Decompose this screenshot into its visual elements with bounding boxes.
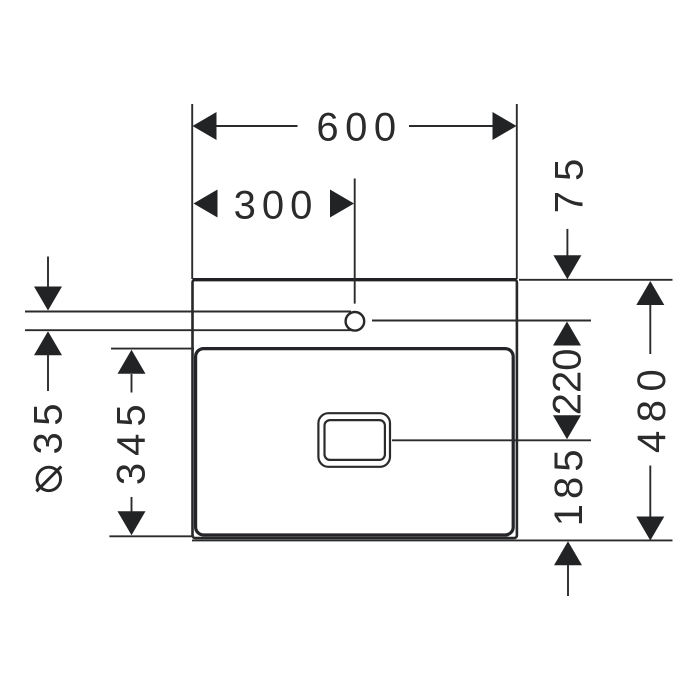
dimension 345 top extension line	[111, 348, 194, 350]
svg-text:345: 345	[110, 397, 154, 485]
svg-text:300: 300	[234, 184, 319, 228]
dimension 185 label	[547, 445, 591, 527]
extension line right vertical (600)	[516, 104, 518, 279]
dimension 345 bottom extension line	[109, 535, 194, 537]
svg-text:75: 75	[548, 149, 592, 214]
dimension 600 right arrow	[493, 112, 517, 140]
faucet hole right extension line	[372, 320, 591, 322]
diameter 35 down arrow	[34, 287, 62, 311]
svg-text:35: 35	[27, 397, 71, 455]
dimension 75 leader line	[566, 229, 568, 257]
dimension 345 down arrow	[118, 511, 146, 535]
faucet hole circle	[346, 312, 365, 331]
svg-text:600: 600	[316, 106, 402, 150]
dimension 220 up arrow	[553, 322, 581, 346]
dimension 480 upper leader line	[649, 305, 651, 355]
svg-text:220: 220	[546, 349, 590, 416]
dimension 75 down arrow	[553, 255, 581, 279]
dimension 480 label	[630, 361, 674, 453]
diameter 35 upper leader line	[47, 257, 49, 289]
dimension 220 down arrow	[553, 415, 581, 439]
dimension 600 label	[316, 106, 402, 150]
dimension 600 left arrow	[193, 112, 217, 140]
dimension 300 left arrow	[194, 190, 218, 218]
diameter 35 up arrow	[34, 331, 62, 355]
faucet hole centerline	[354, 179, 356, 304]
diameter 35 top tangent line	[25, 311, 351, 313]
drain outer rounded rect	[318, 413, 390, 467]
basin outer outline	[193, 280, 517, 538]
dimension 345 upper leader line	[131, 374, 133, 393]
dimension 480 down arrow	[636, 517, 664, 541]
svg-text:185: 185	[547, 445, 591, 527]
dimension 300 label	[234, 184, 319, 228]
svg-text:480: 480	[630, 361, 674, 453]
top right extension line	[519, 279, 673, 281]
dimension 75 label	[548, 149, 592, 214]
dimension 480 lower leader line	[649, 466, 651, 518]
extension line left vertical (600)	[191, 104, 193, 279]
dimension 220 label	[546, 349, 590, 416]
dimension 345 lower leader line	[131, 497, 133, 512]
dimension 185 leader line	[567, 565, 569, 596]
diameter 35 lower leader line	[47, 355, 49, 391]
dimension 345 label	[110, 397, 154, 485]
diameter 35 bottom tangent line	[25, 329, 352, 331]
dimension 345 up arrow	[118, 350, 146, 374]
dimension 600 line	[215, 125, 494, 127]
drain right extension line	[392, 439, 591, 441]
dimension 300 right arrow	[330, 190, 354, 218]
diameter 35 label	[27, 397, 71, 491]
dimension 480 up arrow	[636, 281, 664, 305]
dimension 185 up arrow	[554, 541, 582, 565]
basin bowl inner outline	[196, 349, 514, 535]
bottom extension line	[192, 539, 673, 541]
drain inner rounded rect	[325, 420, 385, 460]
